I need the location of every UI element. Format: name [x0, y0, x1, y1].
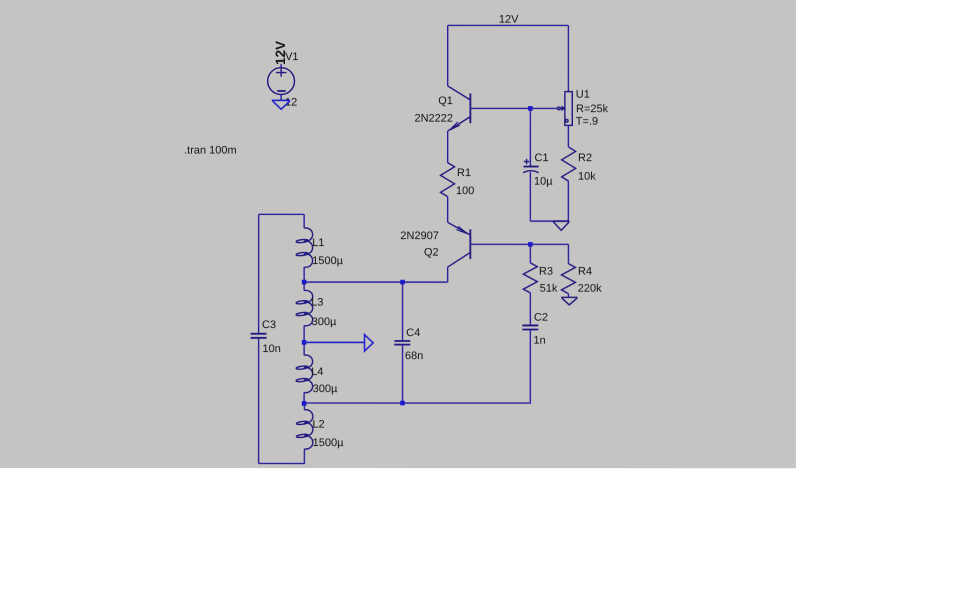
- svg-text:10µ: 10µ: [534, 175, 553, 187]
- wire output tap: [304, 341, 364, 343]
- wire node to R3: [529, 244, 531, 263]
- wire R4 branch: [567, 244, 569, 263]
- svg-text:T=.9: T=.9: [576, 115, 598, 127]
- wire U1 to R2: [567, 125, 569, 147]
- svg-text:10n: 10n: [262, 343, 280, 355]
- wire R3 to C2: [529, 293, 531, 325]
- transistor Q1: [448, 86, 471, 131]
- svg-text:300µ: 300µ: [313, 383, 338, 395]
- svg-text:2N2907: 2N2907: [400, 230, 439, 242]
- svg-text:10k: 10k: [578, 170, 596, 182]
- svg-text:2N2222: 2N2222: [414, 113, 453, 125]
- ground symbol below R2: [553, 221, 569, 230]
- svg-text:300µ: 300µ: [312, 316, 337, 328]
- potentiometer U1: [558, 92, 573, 126]
- wire C4 top: [402, 282, 404, 341]
- output arrow marker: [365, 335, 374, 351]
- svg-text:100: 100: [456, 185, 474, 197]
- wire left rail lower: [258, 338, 260, 464]
- svg-text:51k: 51k: [540, 283, 558, 295]
- svg-text:R1: R1: [457, 167, 471, 179]
- resistor R4: [561, 264, 575, 294]
- junction node C4 top: [400, 280, 405, 285]
- wire node to C1: [529, 108, 531, 166]
- junction node L1/L3/collector bus: [302, 280, 307, 285]
- svg-text:R4: R4: [578, 266, 592, 278]
- wire R2 to ground corner: [567, 181, 569, 221]
- wire C4 bottom: [401, 345, 403, 403]
- svg-text:1500µ: 1500µ: [312, 255, 343, 267]
- junction node Q1 base / C1 / U1 wiper: [528, 106, 533, 111]
- capacitor C4: [394, 341, 410, 345]
- inductor L4: [296, 342, 313, 403]
- capacitor C3: [251, 334, 267, 338]
- junction node L4/L2/bottom bus: [302, 401, 307, 406]
- wire C1 bottom rail: [530, 220, 569, 222]
- wire tank bottom rail: [259, 462, 305, 464]
- resistor R3: [523, 263, 537, 293]
- svg-text:.tran 100m: .tran 100m: [184, 145, 237, 157]
- capacitor C2: [522, 325, 538, 329]
- svg-text:L2: L2: [312, 419, 324, 431]
- wire tank top rail: [259, 213, 305, 215]
- svg-text:R3: R3: [539, 266, 553, 278]
- svg-text:L1: L1: [312, 237, 324, 249]
- junction node C4 bottom: [400, 401, 405, 406]
- wire Q2 base: [470, 243, 568, 245]
- voltage source V1: [268, 64, 295, 101]
- svg-text:12: 12: [285, 96, 297, 108]
- svg-text:L3: L3: [311, 297, 323, 309]
- svg-text:Q2: Q2: [424, 247, 439, 259]
- svg-text:C3: C3: [262, 319, 276, 331]
- schematic background: [0, 0, 796, 468]
- svg-text:U1: U1: [576, 89, 590, 101]
- svg-text:68n: 68n: [405, 350, 423, 362]
- resistor R2: [562, 147, 576, 181]
- capacitor C1 (polarized): [523, 159, 538, 173]
- ground symbol below R4: [561, 297, 577, 305]
- wire Q2 collector down: [447, 267, 449, 282]
- resistor R1: [441, 163, 455, 197]
- svg-text:12V: 12V: [499, 14, 519, 26]
- svg-text:1n: 1n: [533, 334, 545, 346]
- inductor L2: [296, 403, 313, 463]
- svg-text:L4: L4: [311, 366, 323, 378]
- wire collector bus to L chain: [304, 281, 448, 283]
- junction node L3/L4/output tap: [302, 340, 307, 345]
- svg-text:C4: C4: [406, 327, 420, 339]
- wire top rail 12V: [448, 24, 569, 26]
- wire R1 to Q2 emitter: [447, 197, 449, 223]
- junction node Q2 base / R3 / R4: [528, 242, 533, 247]
- wire R4 to ground: [567, 294, 569, 298]
- wire Q1 collector to rail: [447, 25, 449, 86]
- wire C1 to ground rail: [529, 172, 531, 221]
- svg-text:C1: C1: [534, 152, 548, 164]
- wire Q1 emitter to R1: [447, 131, 449, 163]
- svg-text:12V: 12V: [273, 41, 288, 65]
- ground symbol below V1: [272, 100, 290, 109]
- svg-text:1500µ: 1500µ: [313, 437, 344, 449]
- wire left rail upper: [258, 214, 260, 333]
- svg-text:R=25k: R=25k: [576, 103, 609, 115]
- svg-text:C2: C2: [534, 311, 548, 323]
- wire rail to U1: [567, 25, 569, 91]
- inductor L3: [296, 282, 313, 342]
- inductor L1: [296, 214, 313, 282]
- wire C2 to bottom bus: [304, 329, 530, 403]
- svg-text:220k: 220k: [578, 283, 602, 295]
- svg-text:Q1: Q1: [438, 95, 453, 107]
- wire Q1 base to node: [470, 107, 557, 109]
- transistor Q2: [448, 223, 470, 267]
- svg-text:R2: R2: [578, 152, 592, 164]
